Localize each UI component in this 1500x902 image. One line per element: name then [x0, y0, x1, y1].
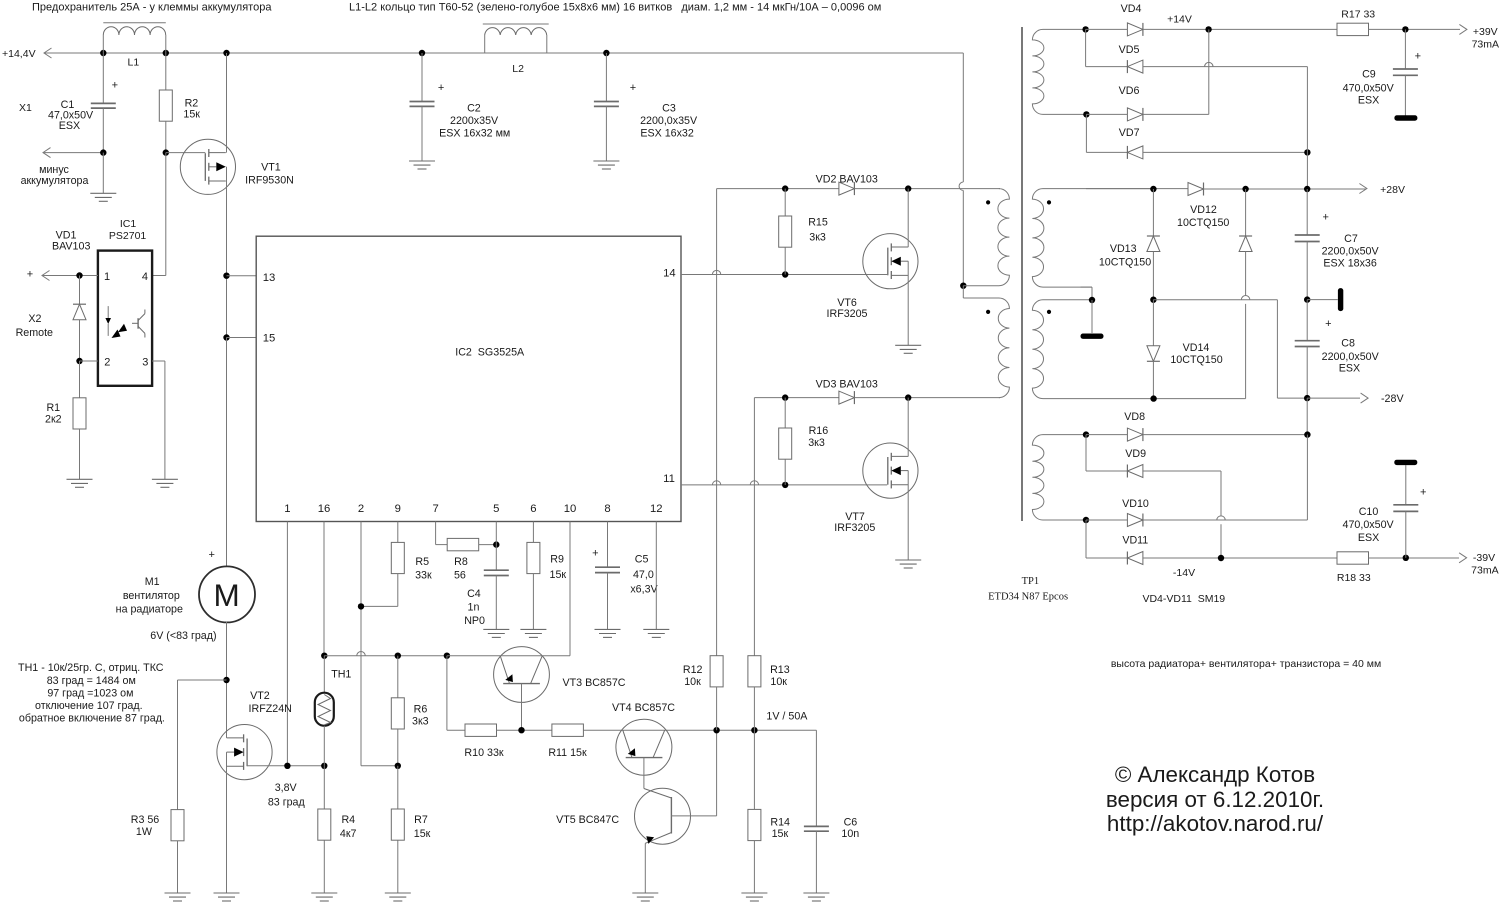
svg-text:VD3 BAV103: VD3 BAV103 [816, 379, 878, 391]
ground VT6 [895, 344, 921, 346]
svg-text:TH1: TH1 [331, 668, 351, 680]
svg-text:C6: C6 [844, 816, 858, 828]
wire sec2 bottom line [1153, 398, 1245, 400]
svg-text:6V (<83 град): 6V (<83 град) [150, 630, 216, 642]
svg-text:© Александр Котов: © Александр Котов [1115, 762, 1315, 787]
svg-text:3к3: 3к3 [808, 437, 825, 449]
junction rail C2 [419, 50, 425, 56]
svg-text:высота радиатора+ вентилятора+: высота радиатора+ вентилятора+ транзисто… [1111, 658, 1381, 670]
transformer TP1 secondary 1 [1032, 189, 1153, 288]
ic IC2 SG3525A box [256, 236, 681, 521]
svg-text:отключение 107 град.: отключение 107 град. [35, 700, 143, 712]
svg-text:C7: C7 [1344, 233, 1358, 245]
phase dot secondary1 [1047, 200, 1051, 204]
capacitor C7 [1306, 189, 1308, 235]
junction R13 line [751, 727, 757, 733]
svg-text:ESX: ESX [1358, 532, 1379, 544]
svg-text:VD6: VD6 [1119, 85, 1140, 97]
transistor VT4 [616, 719, 672, 775]
wire VD7 branch [1085, 114, 1087, 152]
junction center tap [960, 283, 966, 289]
junction sec center [1089, 297, 1095, 303]
resistor R6 [397, 656, 399, 698]
wire R10 R11 [497, 729, 552, 731]
wire pin6 [532, 522, 534, 543]
junction sec-top VD4 [1082, 26, 1088, 32]
diode VD9 [1127, 465, 1143, 478]
svg-text:97 град =1023 ом: 97 град =1023 ом [47, 687, 133, 699]
wire R12 column top [716, 189, 718, 656]
svg-text:2к2: 2к2 [45, 413, 62, 425]
wire R13 bottom [753, 687, 755, 730]
svg-text:4: 4 [142, 271, 148, 283]
resistor R1 [79, 361, 81, 398]
wire VT4 base lead [643, 758, 645, 789]
svg-text:VD14: VD14 [1183, 342, 1210, 354]
wire R12 bottom [716, 687, 718, 730]
wire VT2 source gnd [226, 752, 228, 893]
svg-text:X2: X2 [28, 313, 41, 325]
svg-text:1: 1 [284, 503, 290, 515]
svg-text:VT2: VT2 [250, 690, 270, 702]
wire R2 to IC1 pin4 [165, 153, 167, 276]
svg-text:15к: 15к [183, 108, 200, 120]
wire center tap to primary2 [962, 286, 964, 298]
svg-text:R4: R4 [341, 814, 355, 826]
junction sec-bot VD6 [1083, 111, 1089, 117]
node -39V [1459, 553, 1467, 563]
wire pin14 [681, 274, 887, 276]
capacitor C10 [1394, 460, 1417, 465]
wire -28 out [1307, 397, 1360, 399]
svg-text:15к: 15к [550, 569, 567, 581]
junction sec3-top VD8 [1083, 431, 1089, 437]
core TP1 [1021, 27, 1023, 521]
svg-text:+: + [438, 82, 444, 94]
capacitor C9 [1404, 29, 1406, 69]
wire VD12 out [1204, 188, 1367, 190]
svg-text:VD4-VD11 SM19: VD4-VD11 SM19 [1142, 593, 1225, 605]
svg-text:73mA: 73mA [1472, 39, 1499, 51]
node +28V [1359, 184, 1367, 194]
wire VT5 base [671, 815, 716, 817]
wire pin8 [607, 522, 609, 568]
svg-text:2: 2 [104, 357, 110, 369]
ground C3 [593, 160, 619, 162]
svg-text:+: + [208, 549, 214, 561]
svg-text:VT1: VT1 [261, 162, 281, 174]
IC1 light arrows [112, 330, 121, 339]
junction R15 bottom [782, 271, 788, 277]
svg-text:ESX 18х36: ESX 18х36 [1323, 258, 1377, 270]
wire VT6 source gnd [907, 261, 909, 345]
wire R11 VT4 [583, 729, 816, 731]
junction rail C3 [603, 50, 609, 56]
ground R3 [165, 892, 191, 894]
wire VD3 line [754, 397, 839, 399]
svg-text:VT3 BC857C: VT3 BC857C [563, 677, 626, 689]
IC1 LED [107, 306, 109, 318]
chassis gnd sec [1081, 334, 1104, 339]
svg-text:ESX 16х32: ESX 16х32 [640, 128, 694, 140]
wire VT5 emitter gnd [644, 843, 646, 893]
svg-text:R8: R8 [454, 556, 468, 568]
svg-text:IRF3205: IRF3205 [827, 308, 868, 320]
junction gate TH1 [321, 763, 327, 769]
svg-text:VT5 BC847C: VT5 BC847C [556, 814, 619, 826]
junction VT3 wire [444, 653, 450, 659]
transistor VT2 [217, 725, 272, 780]
resistor R3 [171, 810, 184, 841]
svg-text:PS2701: PS2701 [109, 230, 147, 242]
wire pin2 [360, 522, 362, 766]
svg-text:R5: R5 [415, 556, 429, 568]
junction VT7 drain [905, 394, 911, 400]
junction R3 tap [223, 677, 229, 683]
svg-text:VD10: VD10 [1122, 498, 1149, 510]
svg-text:2: 2 [358, 503, 364, 515]
svg-text:VD11: VD11 [1122, 535, 1148, 547]
resistor R8 [447, 538, 479, 550]
ground C6 [803, 892, 829, 894]
svg-text:R14: R14 [770, 816, 790, 828]
transformer TP1 primary 1 [963, 189, 1009, 286]
resistor R13 [748, 656, 761, 687]
svg-text:на радиаторе: на радиаторе [116, 604, 183, 616]
junction VD14 bottom [1150, 395, 1156, 401]
wire -28 line [1153, 299, 1277, 301]
svg-text:1n: 1n [468, 602, 480, 614]
inductor L1 [103, 22, 166, 24]
svg-text:VD4: VD4 [1121, 3, 1142, 15]
ground IC1 pin3 [152, 478, 178, 480]
junction C9 top [1402, 26, 1408, 32]
diode VD4 [1127, 23, 1143, 36]
diode VD7 [1127, 146, 1143, 159]
svg-text:1V / 50A: 1V / 50A [766, 710, 808, 722]
junction sec3-bot VD10 [1083, 517, 1089, 523]
svg-text:+: + [112, 80, 118, 92]
junction R6 R7 [395, 763, 401, 769]
svg-text:2200,0х35V: 2200,0х35V [640, 115, 698, 127]
wire VD9 out [1143, 470, 1221, 472]
svg-text:TP1: TP1 [1022, 576, 1040, 587]
junction C10 bottom [1403, 555, 1409, 561]
svg-text:IRF3205: IRF3205 [834, 522, 875, 534]
svg-text:L1-L2 кольцо тип Т60-52 (зелен: L1-L2 кольцо тип Т60-52 (зелено-голубое … [349, 2, 881, 14]
wire C8 to VD8 [1306, 398, 1308, 435]
transistor VT3 [494, 647, 550, 703]
wire VD6 out [1143, 113, 1209, 115]
inductor L2 [483, 23, 549, 25]
wire pin7 [435, 522, 437, 545]
svg-text:7: 7 [432, 503, 438, 515]
wire VD11 branch [1085, 520, 1087, 558]
svg-text:IC2 SG3525A: IC2 SG3525A [455, 346, 525, 358]
svg-text:2200,0x50V: 2200,0x50V [1322, 245, 1380, 257]
svg-text:VD9: VD9 [1125, 448, 1146, 460]
svg-text:VD5: VD5 [1119, 44, 1140, 56]
wire R4 gnd [323, 840, 325, 893]
wire VD2 to VT6 [854, 188, 1000, 190]
svg-text:14: 14 [663, 268, 676, 280]
svg-text:3,8V: 3,8V [275, 782, 298, 794]
svg-text:13: 13 [263, 272, 276, 284]
svg-text:470,0x50V: 470,0x50V [1343, 519, 1395, 531]
junction VD7 VD5 [1304, 149, 1310, 155]
svg-text:4к7: 4к7 [340, 828, 357, 840]
svg-text:47,0: 47,0 [633, 569, 654, 581]
diode VD3 [839, 391, 855, 404]
transformer TP1 secondary 2 [1032, 300, 1153, 399]
svg-text:+39V: +39V [1473, 26, 1498, 38]
svg-text:Предохранитель 25А - у клеммы: Предохранитель 25А - у клеммы аккумулято… [32, 2, 272, 14]
svg-text:56: 56 [454, 570, 466, 582]
wire M1 to VT2 [226, 621, 228, 738]
svg-text:M: M [213, 577, 239, 613]
svg-text:ТН1 - 10к/25гр. С, отриц. ТКС: ТН1 - 10к/25гр. С, отриц. ТКС [18, 662, 164, 674]
wire VD2 line [717, 188, 839, 190]
svg-text:R3 56: R3 56 [131, 814, 160, 826]
wire sec3 top line [1086, 434, 1127, 436]
wire VD8 out [1143, 434, 1308, 436]
transistor VT1 [166, 152, 206, 154]
junction TH1 top [321, 653, 327, 659]
transformer TP1 secondary top [1032, 29, 1086, 114]
junction -28 line VD14 [1150, 297, 1156, 303]
wire pin10 [569, 522, 571, 656]
wire VT1 source down [226, 167, 228, 567]
svg-text:10n: 10n [841, 828, 859, 840]
IC1 phototransistor [137, 318, 139, 329]
svg-text:VT4 BC857C: VT4 BC857C [612, 702, 675, 714]
capacitor C6 [815, 730, 817, 826]
junction R12 line [713, 727, 719, 733]
phase dot primary2 [986, 310, 990, 314]
svg-text:+: + [630, 82, 636, 94]
wire pin11 [681, 484, 887, 486]
resistor R17 [1337, 23, 1369, 35]
junction R15 top [782, 185, 788, 191]
svg-text:ESX: ESX [59, 120, 80, 132]
svg-text:VD12: VD12 [1190, 204, 1217, 216]
wire pin13 [227, 275, 257, 277]
wire VD5 branch [1085, 29, 1087, 66]
svg-text:R13: R13 [770, 664, 790, 676]
wire sec3 bottom line [1086, 519, 1127, 521]
wire pin12 [655, 522, 657, 630]
transformer TP1 primary 2 [963, 298, 1009, 398]
wire TH1 line [324, 655, 447, 657]
resistor R4 [323, 766, 325, 809]
wire VD7 out [1143, 151, 1308, 153]
ground VT2 [214, 892, 240, 894]
svg-text:11: 11 [663, 473, 675, 485]
resistor R9 [527, 542, 540, 573]
svg-text:3: 3 [142, 357, 148, 369]
svg-text:R18 33: R18 33 [1337, 572, 1371, 584]
svg-text:VD7: VD7 [1119, 127, 1140, 139]
wire R8 to pin5 [479, 544, 497, 546]
wire VD5 out [1143, 66, 1308, 68]
diode VD8 [1127, 428, 1143, 441]
svg-text:IRFZ24N: IRFZ24N [249, 703, 292, 715]
resistor R15 [784, 189, 786, 216]
svg-text:1W: 1W [136, 826, 153, 838]
diode VD2 [839, 182, 855, 195]
svg-text:ESX 16х32 мм: ESX 16х32 мм [439, 128, 510, 140]
svg-text:L1: L1 [128, 57, 140, 69]
junction VD13b top [1242, 186, 1248, 192]
chassis gnd C7C8 [1338, 288, 1343, 311]
diode VD12 [1188, 183, 1204, 196]
svg-text:+: + [27, 269, 33, 281]
svg-text:1: 1 [104, 271, 110, 283]
svg-text:аккумулятора: аккумулятора [21, 175, 89, 187]
svg-text:+: + [1322, 212, 1328, 224]
junction gate pin1 [284, 763, 290, 769]
chassis gnd C9 [1394, 115, 1417, 120]
wire R3 gnd [177, 841, 179, 893]
resistor R14 [753, 730, 755, 809]
diode VD5 [1127, 60, 1143, 73]
junction rail R2 [163, 50, 169, 56]
wire IC1 pin3 [152, 360, 165, 362]
diode VD13 left [1152, 189, 1154, 236]
wire pin9 [397, 522, 399, 543]
wire R14 gnd [753, 841, 755, 893]
svg-text:VD8: VD8 [1124, 411, 1145, 423]
svg-text:10: 10 [564, 503, 577, 515]
junction R16 bottom [782, 482, 788, 488]
ground R7 [385, 892, 411, 894]
resistor R18 [1337, 552, 1369, 564]
svg-text:BAV103: BAV103 [52, 240, 90, 252]
ground pin12 [643, 628, 669, 630]
svg-text:ESX: ESX [1339, 363, 1360, 375]
svg-text:версия от 6.12.2010г.: версия от 6.12.2010г. [1106, 787, 1324, 812]
junction VD4 out [1205, 26, 1211, 32]
wire R3 branch [178, 679, 227, 681]
wire VD9 branch [1085, 435, 1087, 471]
wire R10 branch [446, 656, 448, 731]
svg-text:83 град: 83 град [268, 796, 306, 808]
svg-text:C4: C4 [467, 588, 481, 600]
svg-text:12: 12 [650, 503, 663, 515]
svg-text:VD2 BAV103: VD2 BAV103 [816, 173, 878, 185]
svg-text:16: 16 [318, 503, 331, 515]
wire R7 gnd [397, 840, 399, 893]
junction pin13 [223, 273, 229, 279]
wire +14.4V to center tap [962, 53, 964, 182]
wire pin5 [495, 522, 497, 571]
wire sec1 top line [1086, 188, 1189, 190]
wire VD5-VD7 to +28 [1306, 67, 1308, 189]
junction -28 C8 [1304, 395, 1310, 401]
svg-text:-14V: -14V [1173, 567, 1195, 579]
svg-text:83 град = 1484 ом: 83 град = 1484 ом [47, 675, 136, 687]
svg-text:-39V: -39V [1473, 552, 1495, 564]
ground R1 [67, 478, 93, 480]
wire IC1 pin1 [42, 271, 50, 281]
junction VD8 -28col [1304, 431, 1310, 437]
svg-text:VD13: VD13 [1110, 243, 1137, 255]
svg-text:+14V: +14V [1167, 13, 1192, 25]
svg-text:15к: 15к [772, 828, 789, 840]
svg-text:10CTQ150: 10CTQ150 [1177, 217, 1229, 229]
phase dot secondary2 [1047, 310, 1051, 314]
svg-text:3к3: 3к3 [809, 231, 826, 243]
junction IC1 pin2 [76, 358, 82, 364]
junction VT6 drain [905, 185, 911, 191]
ground C5 [595, 628, 621, 630]
junction R16 top [782, 394, 788, 400]
wire VD11 out [1143, 557, 1337, 559]
resistor R5 [391, 542, 404, 573]
svg-text:ETD34 N87 Epcos: ETD34 N87 Epcos [988, 592, 1068, 603]
wire VT7 source gnd [907, 471, 909, 560]
wire VD10 out [1143, 519, 1308, 521]
svg-text:R17 33: R17 33 [1341, 8, 1375, 20]
svg-text:2200,0x50V: 2200,0x50V [1322, 351, 1380, 363]
resistor R16 [784, 398, 786, 428]
resistor R10 [465, 724, 497, 736]
wire sec1 bottom [1081, 286, 1092, 288]
phase dot primary1 [986, 200, 990, 204]
capacitor C4 [484, 569, 509, 571]
wire pin1 [286, 522, 288, 766]
svg-text:10к: 10к [770, 676, 787, 688]
svg-text:R7: R7 [414, 814, 428, 826]
svg-text:8: 8 [604, 503, 610, 515]
svg-text:-28V: -28V [1381, 393, 1404, 405]
transistor VT5 [635, 788, 691, 844]
junction R2 gate [163, 149, 169, 155]
svg-text:R10 33к: R10 33к [464, 747, 503, 759]
svg-text:+: + [1415, 51, 1421, 63]
wire minus battery [43, 148, 51, 158]
svg-text:+28V: +28V [1380, 184, 1405, 196]
svg-text:R1: R1 [46, 402, 60, 414]
junction pin15 [223, 334, 229, 340]
transistor VT6 [863, 234, 918, 289]
ground C4 [483, 628, 509, 630]
svg-text:x6,3V: x6,3V [630, 583, 658, 595]
opto-coupler IC1 [98, 251, 152, 386]
svg-text:+: + [1420, 487, 1426, 499]
capacitor C8 [1306, 300, 1308, 341]
wire R5 to pin2 [397, 574, 399, 607]
svg-text:M1: M1 [145, 576, 160, 588]
svg-text:обратное включение 87 град.: обратное включение 87 град. [19, 713, 165, 725]
svg-text:R6: R6 [414, 704, 428, 716]
svg-text:R12: R12 [683, 664, 703, 676]
svg-text:C9: C9 [1362, 69, 1376, 81]
svg-text:R9: R9 [550, 553, 564, 565]
svg-text:http://akotov.narod.ru/: http://akotov.narod.ru/ [1107, 811, 1324, 836]
resistor R2 [165, 53, 167, 90]
ground VT5 [632, 892, 658, 894]
junction +28 C7 [1304, 186, 1310, 192]
svg-text:ESX: ESX [1358, 95, 1379, 107]
svg-text:R15: R15 [808, 216, 828, 228]
svg-text:L2: L2 [512, 63, 524, 75]
diode VD6 [1127, 108, 1143, 121]
diode VD11 [1127, 552, 1143, 565]
resistor R12 [710, 656, 723, 687]
ground VT7 [895, 559, 921, 561]
svg-text:R11 15к: R11 15к [548, 747, 587, 759]
